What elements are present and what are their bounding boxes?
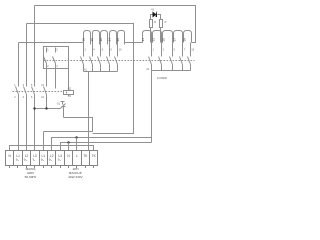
svg-text:L2: L2 [25, 154, 29, 158]
group2 contact 1 [149, 43, 152, 71]
junction dot L3 W1 [33, 107, 35, 109]
group1 comb drop to TK1 [88, 72, 90, 151]
handle tick inside [66, 92, 68, 94]
wire N riser and N run [10, 146, 94, 151]
svg-text:20: 20 [90, 38, 94, 42]
small component labels [14, 8, 195, 105]
breaker contact 2 [53, 48, 56, 69]
main switch Q pole 3 [32, 87, 35, 95]
svg-text:31: 31 [141, 38, 145, 42]
group1 staple 3 [101, 31, 108, 45]
junction dot N2 [67, 141, 69, 143]
breaker linkage dashed [44, 60, 195, 62]
wire L1 top run [19, 42, 84, 44]
svg-text:-V1: -V1 [151, 8, 155, 11]
switch S1 output [63, 109, 65, 118]
resistor R1 [150, 20, 153, 28]
svg-text:-Q1: -Q1 [67, 87, 72, 90]
svg-text:12-DM38: 12-DM38 [157, 77, 168, 80]
group2 contact 3 [170, 43, 173, 71]
group1 staple 1 [84, 31, 91, 45]
main switch linkage dashed [13, 91, 64, 93]
wire L3 riser [34, 6, 36, 151]
diode V1 wires [151, 15, 161, 20]
svg-text:L3: L3 [58, 154, 62, 158]
diode V1 body [153, 12, 157, 18]
main switch Q pole 1 [16, 87, 19, 95]
handle box [64, 91, 74, 95]
breaker box F1 [44, 47, 69, 69]
text backup [68, 167, 83, 179]
wire L3' feed run [61, 143, 152, 151]
text mains [25, 167, 37, 179]
junction dot pole4 W1 [45, 107, 47, 109]
svg-text:37: 37 [172, 38, 176, 42]
svg-text:22: 22 [99, 38, 103, 42]
svg-text:35: 35 [162, 38, 166, 42]
terminal strip outline [6, 151, 98, 169]
group1 contact 4 [107, 45, 110, 72]
strip arrows [16, 159, 61, 162]
terminal labels [9, 154, 97, 158]
main switch Q pole 2 [24, 87, 27, 95]
group1 staple 4 [110, 31, 117, 45]
svg-text:N: N [69, 95, 71, 98]
switch S1: W1 feed [35, 108, 61, 110]
wire pole4 riser [46, 69, 48, 109]
group2 contact 4 [180, 43, 183, 71]
resistor R2 leg [160, 28, 162, 43]
switch S1 contact [61, 102, 66, 109]
svg-text:50-60Hz: 50-60Hz [25, 175, 37, 179]
wire L2 top run [27, 24, 134, 43]
wire switch loop to L1' [44, 118, 93, 151]
baseline bridge gap12 [152, 42, 153, 44]
wire L2 riser [26, 24, 28, 151]
resistor R1 leg [150, 28, 152, 43]
group2 comb drop [151, 71, 153, 143]
group1 staple 5 [118, 31, 125, 45]
group2 staple 3 [163, 31, 173, 43]
svg-text:R: R [154, 21, 156, 24]
group1 contact 2 [90, 45, 93, 72]
wire L3 top run [35, 6, 196, 43]
group2 staple 5 [184, 31, 192, 43]
breaker shaft to handle [68, 69, 70, 91]
group2 contact 5 [188, 43, 191, 71]
wire breaker c2 down [55, 69, 57, 89]
wire L riser [76, 138, 78, 151]
baseline bridge gap23 [162, 42, 163, 44]
wire L2' feed run [52, 138, 152, 151]
terminal bottom stubs [10, 166, 94, 169]
svg-text:L3: L3 [33, 154, 37, 158]
svg-text:-S1: -S1 [56, 103, 60, 106]
resistor R2 [160, 20, 163, 28]
svg-text:R: R [165, 21, 167, 24]
group1 comb bus [84, 71, 118, 73]
main switch Q pole 4 [44, 87, 47, 95]
wire L1 riser [18, 43, 20, 151]
breaker contact 1 [44, 48, 47, 69]
svg-text:26: 26 [116, 38, 120, 42]
svg-text:18: 18 [82, 38, 86, 42]
svg-text:L1: L1 [42, 154, 46, 158]
bridge baseline between groups [125, 42, 143, 44]
group2 staple 4 [174, 31, 183, 43]
svg-text:L: L [76, 154, 78, 158]
handle tick below [68, 95, 70, 97]
svg-text:L2: L2 [50, 154, 54, 158]
group2 contact 2 [159, 43, 162, 71]
svg-text:L1: L1 [16, 154, 20, 158]
group1 contact 3 [98, 45, 101, 72]
group2 comb bus [152, 70, 191, 72]
group1 staple 2 [93, 31, 100, 45]
junction dot L riser [75, 136, 77, 138]
svg-text:2kW 230V: 2kW 230V [68, 175, 83, 179]
wire bridge drop loop [93, 43, 134, 134]
group1 contact 1 [81, 45, 84, 72]
group2 staple 1 [143, 31, 152, 43]
svg-text:39: 39 [183, 38, 187, 42]
svg-text:33: 33 [151, 38, 155, 42]
svg-text:24: 24 [107, 38, 111, 42]
wire N2 riser [68, 143, 70, 151]
group1 contact 5 [115, 45, 118, 72]
group2 staple 2 [153, 31, 162, 43]
